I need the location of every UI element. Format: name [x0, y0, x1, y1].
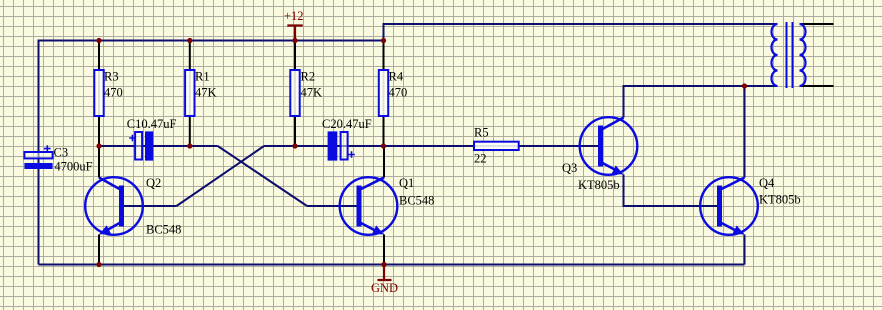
svg-text:BC548: BC548	[146, 222, 181, 236]
svg-text:470: 470	[104, 86, 123, 100]
wire left vertical drop through C3	[38, 40, 40, 265]
junction node R3/C1/Q2 collector	[96, 143, 101, 148]
ground symbol GND	[371, 265, 398, 296]
svg-text:Q3: Q3	[562, 161, 577, 175]
wire Q3 collector to transformer	[624, 86, 778, 118]
wire top rail step up to transformer	[384, 24, 778, 41]
svg-text:C20.47uF: C20.47uF	[322, 117, 372, 131]
svg-text:22: 22	[474, 151, 487, 165]
transistor Q4	[700, 176, 800, 235]
wire R2 pins vertical	[294, 41, 296, 147]
transistor Q3	[562, 117, 637, 192]
wire Q2 base horizontal	[122, 205, 177, 207]
junction R4 top	[381, 38, 386, 43]
junction Q1 emitter / GND	[381, 262, 386, 267]
junction R2 top / +12	[292, 38, 297, 43]
svg-text:Q4: Q4	[759, 176, 775, 190]
wire bottom rail	[39, 264, 745, 266]
junction node R4/C2/Q1 collector	[381, 143, 386, 148]
svg-text:R5: R5	[474, 125, 489, 139]
svg-text:Q1: Q1	[399, 176, 414, 190]
svg-text:R3: R3	[104, 70, 119, 84]
wire Q2 emitter pin	[98, 235, 100, 266]
wire R1 pins vertical	[189, 41, 191, 147]
wire Q4 collector drop	[744, 86, 746, 178]
power port +12	[284, 9, 304, 41]
wire Q2 collector pin	[98, 146, 100, 178]
resistor R3 body	[94, 70, 122, 117]
wire Q4 emitter drop	[744, 235, 746, 265]
svg-text:R1: R1	[195, 70, 210, 84]
svg-text:47K: 47K	[301, 86, 323, 100]
svg-text:Q2: Q2	[146, 176, 161, 190]
svg-text:R4: R4	[389, 70, 404, 84]
capacitor C2	[322, 117, 372, 161]
svg-text:470: 470	[389, 86, 408, 100]
wire mid horizontal right (C2/R2/R4/R5 node)	[264, 145, 601, 147]
junction transformer/Q4 collector	[742, 83, 747, 88]
resistor R2 body	[290, 70, 322, 117]
resistor R5 body	[474, 125, 519, 165]
svg-text:R2: R2	[301, 70, 316, 84]
transformer T1 core	[787, 22, 793, 88]
svg-text:+12: +12	[284, 9, 304, 23]
wire Q1 emitter pin	[383, 235, 385, 265]
junction R1 top	[187, 38, 192, 43]
wire Q1 collector pin	[383, 146, 385, 178]
wire mid horizontal left (R3/C1 node)	[99, 145, 218, 147]
svg-text:BC548: BC548	[399, 193, 434, 207]
resistor R4 body	[379, 70, 407, 117]
svg-text:47K: 47K	[195, 86, 217, 100]
capacitor C1	[127, 117, 177, 161]
wire top rail	[39, 40, 384, 42]
junction Q2 emitter on bottom rail	[96, 262, 101, 267]
svg-text:4700uF: 4700uF	[54, 159, 92, 173]
transformer T1 primary winding	[772, 24, 778, 86]
wire Q1 base horizontal	[307, 205, 359, 207]
wire transformer secondary bottom stub	[800, 85, 834, 87]
wire R4 pins vertical	[383, 41, 385, 147]
wire cross diagonal Q2 base-to-C2	[177, 146, 265, 206]
junction R3 top	[96, 38, 101, 43]
wire transformer secondary top stub	[800, 23, 834, 25]
capacitor C3	[24, 145, 92, 173]
wire Q3 emitter to Q4 base	[624, 175, 720, 207]
svg-text:GND: GND	[371, 281, 398, 295]
transistor Q1	[340, 176, 435, 235]
wire cross diagonal C1-to-Q1 base	[218, 146, 307, 206]
transistor Q2	[85, 176, 181, 237]
svg-text:KT805b: KT805b	[759, 192, 801, 206]
wire R3 pins vertical	[98, 41, 100, 147]
junction node R2 bottom	[292, 143, 297, 148]
svg-text:KT805b: KT805b	[578, 178, 620, 192]
junction node R1 bottom	[187, 143, 192, 148]
svg-text:C10.47uF: C10.47uF	[127, 117, 177, 131]
transformer T1 secondary winding	[800, 24, 806, 86]
resistor R1 body	[185, 70, 216, 117]
svg-text:C3: C3	[54, 146, 69, 160]
